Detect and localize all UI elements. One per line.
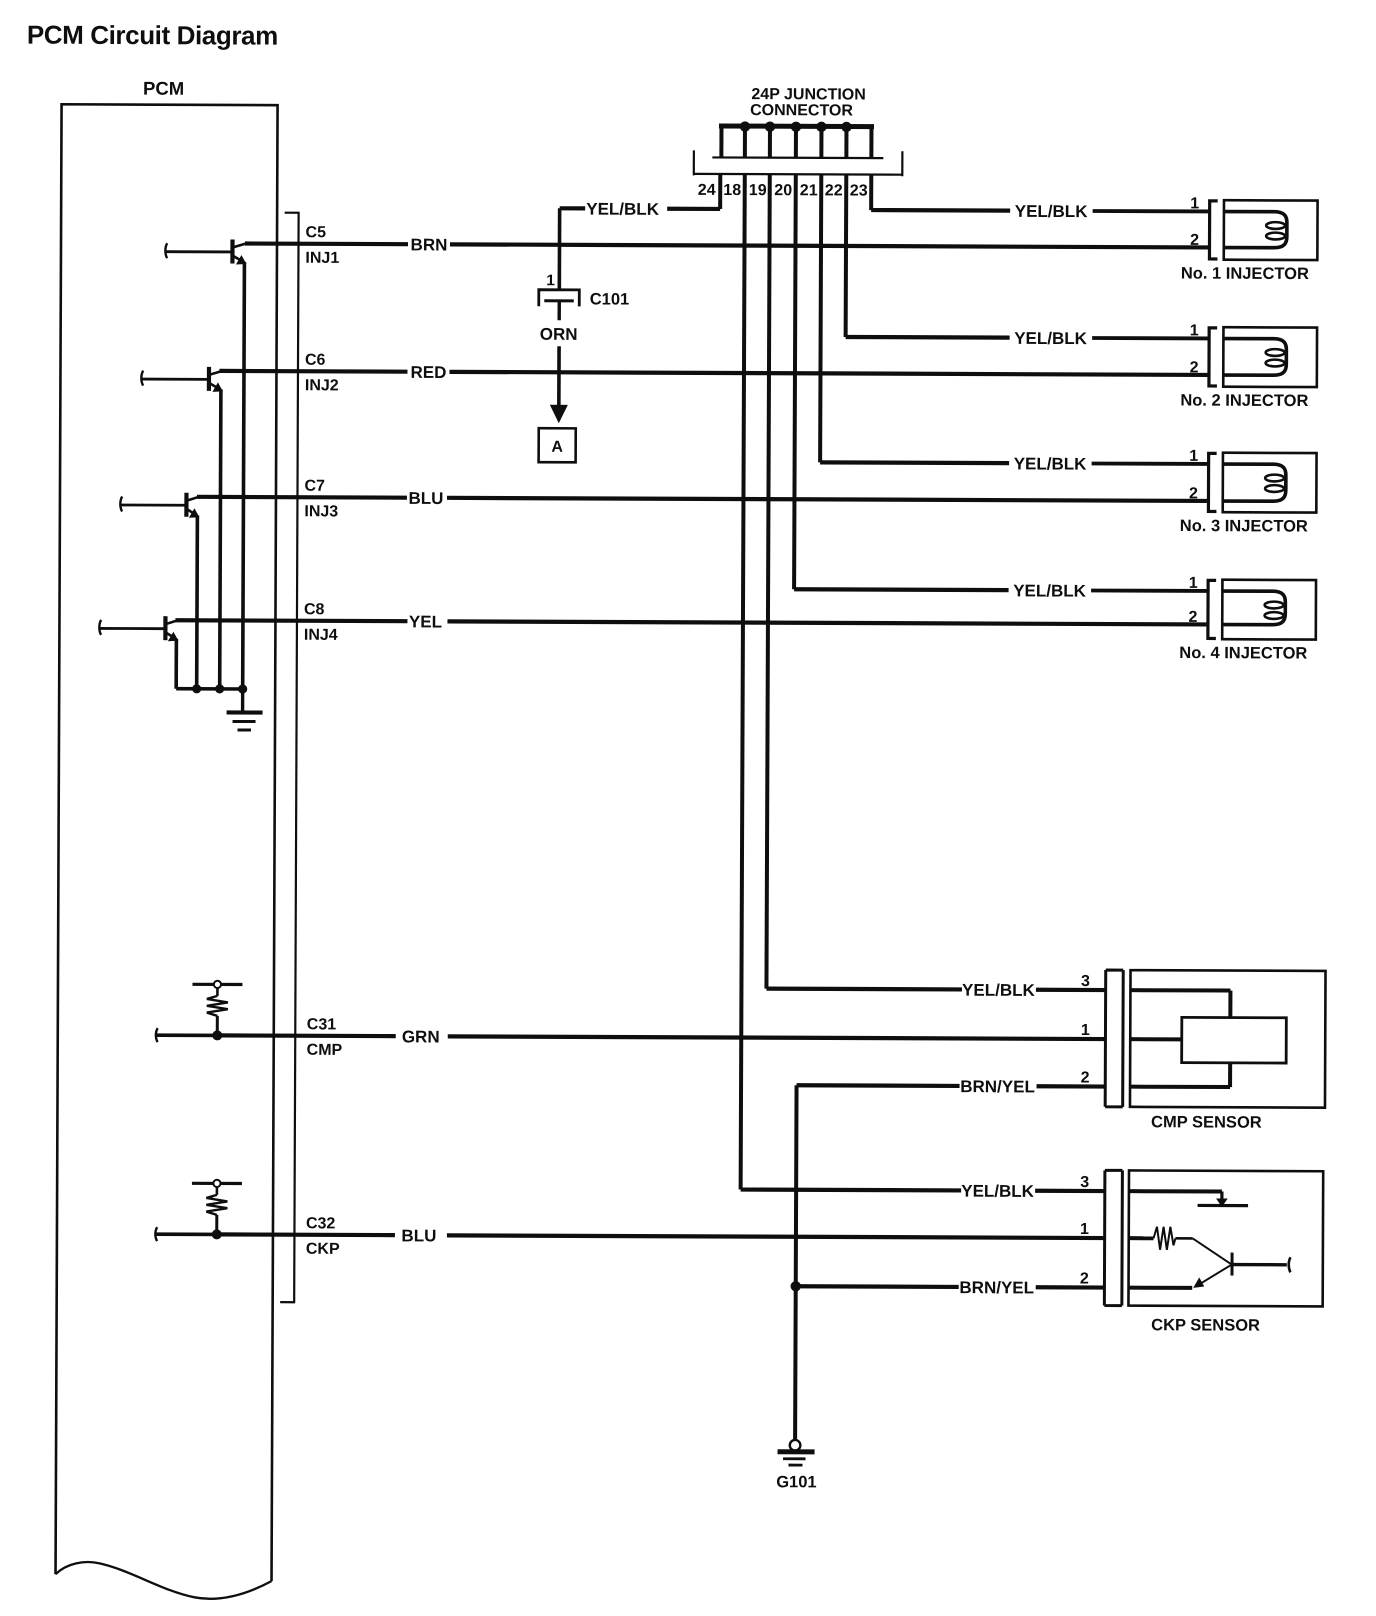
ground symbol bar 2 — [233, 720, 256, 723]
No.2 injector coil loop 2 — [1266, 360, 1285, 367]
C101 lower lead — [557, 301, 560, 320]
resistor R2 (CKP pull-up) wire end tick — [155, 1227, 157, 1241]
No.1 injector connector bracket — [1209, 201, 1217, 259]
resistor R2 (CKP pull-up) junction dot — [212, 1229, 222, 1239]
BRN/YEL wire to CMP pin 2 (right segment) — [1037, 1084, 1106, 1088]
svg-text:C8: C8 — [304, 601, 325, 618]
CKP internal wire after coil — [1175, 1237, 1192, 1240]
svg-text:YEL/BLK: YEL/BLK — [962, 981, 1036, 1000]
No.4 injector coil loop 2 — [1265, 612, 1284, 619]
transistor Q2 base lead end tick — [141, 371, 143, 386]
svg-text:BRN/YEL: BRN/YEL — [960, 1077, 1035, 1096]
resistor R1 (CMP pull-up) resistor lead — [216, 1016, 219, 1035]
No.2 injector body — [1223, 327, 1317, 387]
transistor Q1 base lead end tick — [165, 243, 167, 258]
resistor R1 (CMP pull-up) resistor top lead — [216, 988, 219, 995]
off-page connector box A — [539, 428, 576, 462]
wire C5 BRN to No.1 injector pin 2 (left segment) — [245, 241, 408, 246]
resistor R2 (CKP pull-up) supply bar — [192, 1182, 242, 1185]
pin 24 YEL/BLK wire left segment — [560, 206, 585, 210]
pin 24 wire down — [718, 174, 722, 209]
No.1 injector coil loop 1 — [1266, 222, 1285, 229]
wire C31 GRN to CMP sensor pin 1 (left segment) — [217, 1033, 395, 1038]
transistor Q4 base lead end tick — [99, 620, 101, 635]
BRN/YEL wire to CKP pin 2 (left segment) — [796, 1284, 959, 1289]
svg-text:18: 18 — [723, 182, 741, 199]
G101 ground bar 1 — [778, 1449, 815, 1454]
CKP internal arrowhead to pin 2 — [1193, 1277, 1204, 1288]
YEL/BLK wire to No.3 injector (left segment) — [820, 460, 1009, 465]
wire C6 RED to No.2 injector pin 2 (right segment) — [449, 372, 1207, 375]
G101 ground bar 2 — [783, 1457, 805, 1460]
CKP internal diagonal upper — [1193, 1238, 1232, 1264]
BRN/YEL wire to CMP pin 2 (left segment) — [797, 1083, 960, 1088]
svg-text:C31: C31 — [307, 1016, 337, 1033]
CKP pole piece bar — [1230, 1253, 1233, 1276]
No.1 injector coil outline — [1224, 212, 1287, 248]
svg-text:20: 20 — [774, 182, 792, 199]
resistor R1 (CMP pull-up) supply node circle — [214, 981, 221, 988]
transistor Q3 base lead — [121, 504, 186, 507]
No.2 injector coil loop 1 — [1266, 349, 1285, 356]
svg-text:INJ4: INJ4 — [304, 627, 338, 644]
transistor Q3 collector — [186, 497, 199, 501]
No.1 injector coil loop 2 — [1266, 233, 1285, 240]
YEL/BLK wire to No.4 injector (left segment) — [794, 587, 1008, 592]
No.3 injector body — [1223, 453, 1317, 513]
transistor Q2 collector — [209, 371, 223, 375]
transistor Q3 base bar — [184, 493, 188, 517]
PCM connector strip bottom tick — [280, 1301, 295, 1303]
No.4 injector coil loop 1 — [1265, 602, 1284, 609]
No.4 injector connector bracket — [1208, 580, 1216, 638]
svg-text:YEL/BLK: YEL/BLK — [961, 1182, 1035, 1201]
svg-text:22: 22 — [825, 182, 843, 199]
CMP sensor body — [1130, 970, 1326, 1107]
No.4 injector coil outline — [1222, 591, 1285, 625]
junction connector comb tooth pin 20 — [794, 126, 798, 158]
CKP internal shield arrowhead — [1216, 1198, 1228, 1207]
svg-text:C101: C101 — [590, 290, 630, 308]
No.2 injector coil outline — [1223, 339, 1286, 376]
resistor R2 (CKP pull-up) resistor lead — [215, 1215, 218, 1234]
capacitor C101 bottom plate — [544, 299, 573, 302]
svg-text:BLU: BLU — [408, 489, 443, 508]
svg-text:INJ3: INJ3 — [304, 503, 338, 520]
transistor Q3 emitter arrowhead — [189, 508, 200, 518]
BRN/YEL wire to CKP pin 2 (right segment) — [1036, 1285, 1105, 1289]
transistor Q4 collector — [165, 620, 178, 624]
svg-text:19: 19 — [749, 182, 767, 199]
transistor Q1 base bar — [230, 239, 234, 263]
svg-text:No. 2 INJECTOR: No. 2 INJECTOR — [1180, 392, 1308, 411]
transistor Q2 emitter arrowhead — [212, 382, 223, 392]
junction bus node pin 18 — [740, 121, 750, 131]
transistor Q3 emitter wire down to ground rail — [195, 515, 199, 688]
junction connector body upper line — [712, 156, 883, 159]
junction connector comb tooth pin 19 — [768, 126, 772, 158]
junction emitters Q1 — [238, 684, 247, 693]
transistor Q1 collector — [232, 243, 246, 247]
svg-text:YEL/BLK: YEL/BLK — [1014, 454, 1088, 473]
CMP internal wire pin 3 — [1130, 988, 1230, 992]
CMP sensor element box — [1182, 1017, 1287, 1063]
svg-text:1: 1 — [1081, 1022, 1090, 1039]
svg-text:C32: C32 — [306, 1215, 336, 1232]
CMP internal wire pin 1 — [1130, 1037, 1181, 1041]
svg-text:1: 1 — [1189, 575, 1198, 592]
junction connector bus end drop x=872 — [869, 127, 873, 159]
wire C8 YEL to No.4 injector pin 2 (left segment) — [175, 618, 407, 623]
svg-text:C6: C6 — [305, 352, 326, 369]
CMP sensor connector bracket — [1105, 970, 1123, 1107]
svg-text:YEL/BLK: YEL/BLK — [1013, 581, 1087, 600]
junction emitters Q2 — [215, 684, 224, 693]
svg-text:3: 3 — [1081, 973, 1090, 990]
svg-text:3: 3 — [1080, 1174, 1089, 1191]
svg-text:2: 2 — [1189, 609, 1198, 626]
No.3 injector coil loop 1 — [1265, 475, 1284, 482]
ORN wire down to A — [557, 346, 561, 406]
transistor Q4 emitter arrowhead — [168, 632, 179, 642]
PCM box torn bottom edge — [55, 1562, 271, 1599]
svg-text:24: 24 — [698, 182, 716, 199]
pin 20 wire down to No.4 injector — [794, 174, 796, 589]
YEL/BLK wire to No.1 injector (right segment) — [1093, 209, 1209, 213]
svg-text:CKP: CKP — [306, 1241, 340, 1258]
CKP internal wire pin 2 — [1129, 1286, 1193, 1290]
YEL/BLK wire to No.2 injector (right segment) — [1092, 336, 1208, 340]
PCM box outline — [56, 104, 278, 1581]
svg-text:YEL/BLK: YEL/BLK — [586, 200, 660, 219]
No.4 injector body — [1222, 580, 1316, 640]
transistor Q4 emitter wire down to ground rail — [174, 639, 178, 689]
BRN/YEL common wire down to G101 — [795, 1085, 796, 1440]
emitter common rail — [176, 687, 242, 691]
wire C7 BLU to No.3 injector pin 2 (left segment) — [197, 495, 407, 500]
wire C32 BLU to CKP sensor pin 1 (left segment) — [217, 1232, 395, 1237]
YEL/BLK wire to CKP pin 3 (right segment) — [1035, 1189, 1105, 1193]
CKP pole piece end tick — [1289, 1257, 1291, 1272]
CMP internal wire pin 2 rise — [1228, 1063, 1232, 1087]
junction connector body right end — [901, 151, 903, 176]
svg-text:INJ1: INJ1 — [305, 250, 339, 267]
svg-text:2: 2 — [1190, 359, 1199, 376]
svg-text:1: 1 — [1080, 1221, 1089, 1238]
transistor Q1 emitter — [232, 255, 244, 262]
svg-text:2: 2 — [1080, 1270, 1089, 1287]
YEL/BLK wire to CMP pin 3 (left segment) — [766, 987, 961, 992]
svg-text:C5: C5 — [306, 224, 327, 241]
junction bus node pin 22 — [841, 122, 851, 132]
pin 18 wire down to CKP — [741, 174, 745, 1189]
svg-text:C7: C7 — [304, 478, 325, 495]
wire to PCM internal ground — [241, 689, 244, 712]
No.3 injector connector bracket — [1208, 453, 1216, 511]
wire C32 BLU to CKP sensor pin 1 (right segment) — [447, 1235, 1104, 1238]
junction bus node pin 19 — [765, 121, 775, 131]
wire C6 RED to No.2 injector pin 2 (left segment) — [219, 369, 407, 374]
arrow to off-page connector A — [550, 405, 568, 424]
svg-text:GRN: GRN — [402, 1027, 440, 1046]
G101 ground bar 3 — [788, 1464, 802, 1467]
wire C7 BLU to No.3 injector pin 2 (right segment) — [447, 498, 1207, 501]
wire C5 BRN to No.1 injector pin 2 (right segment) — [450, 244, 1208, 247]
svg-text:1: 1 — [1189, 448, 1198, 465]
svg-text:2: 2 — [1081, 1069, 1090, 1086]
pin 19 wire down to CMP — [766, 174, 769, 988]
resistor R1 (CMP pull-up) junction dot — [212, 1030, 222, 1040]
resistor R2 (CKP pull-up) resistor top lead — [216, 1187, 219, 1194]
resistor R1 (CMP pull-up) resistor zigzag — [207, 996, 228, 1016]
transistor Q1 base lead — [166, 250, 232, 253]
No.3 injector coil loop 2 — [1265, 485, 1284, 492]
svg-text:YEL/BLK: YEL/BLK — [1015, 202, 1089, 221]
transistor Q4 base bar — [163, 616, 167, 640]
wire C8 YEL to No.4 injector pin 2 (right segment) — [447, 621, 1206, 624]
junction emitters Q3 — [192, 684, 201, 693]
CKP pole piece arm — [1232, 1263, 1287, 1267]
pin 23 wire down to No.1 injector — [869, 175, 873, 210]
junction connector comb tooth pin 18 — [743, 126, 747, 158]
PCM connector strip line — [294, 213, 298, 1302]
svg-text:1: 1 — [1190, 195, 1199, 212]
svg-text:ORN: ORN — [540, 325, 578, 344]
svg-text:YEL: YEL — [409, 612, 442, 631]
transistor Q4 emitter — [165, 632, 176, 639]
transistor Q2 base lead — [142, 378, 209, 381]
junction connector comb tooth pin 22 — [844, 126, 848, 158]
svg-text:No. 1 INJECTOR: No. 1 INJECTOR — [1181, 265, 1309, 284]
svg-text:23: 23 — [850, 182, 868, 199]
svg-text:CONNECTOR: CONNECTOR — [750, 102, 853, 119]
transistor Q3 emitter — [186, 509, 197, 516]
CKP internal diagonal lower — [1201, 1264, 1232, 1283]
svg-text:CMP: CMP — [307, 1042, 343, 1059]
junction connector bus bar — [719, 123, 874, 129]
resistor R2 (CKP pull-up) supply node circle — [213, 1180, 220, 1187]
No.3 injector coil outline — [1223, 464, 1286, 501]
junction bus node pin 21 — [816, 122, 826, 132]
wire C31 GRN to CMP sensor pin 1 (right segment) — [448, 1036, 1105, 1039]
YEL/BLK wire to No.2 injector (left segment) — [846, 335, 1010, 340]
svg-text:YEL/BLK: YEL/BLK — [1014, 329, 1088, 348]
junction bus node pin 20 — [791, 122, 801, 132]
junction BRN/YEL CKP pin 2 — [791, 1281, 801, 1291]
svg-text:2: 2 — [1190, 232, 1199, 249]
ground symbol bar 3 — [238, 728, 251, 731]
transistor Q3 base lead end tick — [120, 496, 122, 511]
CKP pickup coil zigzag — [1153, 1227, 1175, 1250]
No.2 injector connector bracket — [1209, 328, 1217, 386]
capacitor C101 top plate bracket — [539, 290, 580, 307]
svg-text:RED: RED — [410, 363, 446, 382]
svg-text:BRN/YEL: BRN/YEL — [959, 1278, 1034, 1297]
wire down to capacitor C101 — [558, 208, 562, 289]
CKP sensor body — [1128, 1170, 1323, 1306]
junction connector comb tooth pin 21 — [819, 126, 823, 158]
svg-text:BLU: BLU — [401, 1226, 436, 1245]
junction connector body lower line — [694, 173, 902, 176]
CMP internal wire pin 3 drop — [1228, 991, 1232, 1018]
svg-text:INJ2: INJ2 — [305, 377, 339, 394]
CKP internal shield bar — [1198, 1204, 1248, 1207]
svg-text:No. 4 INJECTOR: No. 4 INJECTOR — [1179, 644, 1307, 663]
ground symbol bar 1 — [227, 710, 263, 714]
pin 24 YEL/BLK wire right segment — [667, 207, 720, 211]
pin 22 wire down to No.2 injector — [844, 174, 849, 336]
svg-text:G101: G101 — [776, 1473, 816, 1491]
PCM connector strip top tick — [285, 212, 300, 214]
CKP internal wire pin 3 drop — [1220, 1192, 1223, 1204]
CKP internal wire pin 1 — [1129, 1236, 1154, 1240]
svg-text:BRN: BRN — [411, 235, 448, 254]
svg-text:24P JUNCTION: 24P JUNCTION — [751, 86, 865, 103]
resistor R1 (CMP pull-up) wire end tick — [156, 1028, 158, 1042]
transistor Q1 emitter arrowhead — [236, 255, 247, 265]
svg-text:PCM Circuit Diagram: PCM Circuit Diagram — [27, 20, 278, 51]
transistor Q1 emitter wire down to ground rail — [243, 262, 245, 689]
CMP internal wire pin 2 — [1130, 1085, 1230, 1089]
svg-text:CKP SENSOR: CKP SENSOR — [1151, 1316, 1260, 1334]
transistor Q2 base bar — [207, 367, 211, 391]
svg-text:1: 1 — [546, 272, 555, 289]
pin 21 wire down to No.3 injector — [820, 174, 821, 462]
resistor R2 (CKP pull-up) wire inside PCM — [156, 1232, 294, 1236]
svg-text:21: 21 — [800, 182, 818, 199]
svg-text:1: 1 — [1190, 322, 1199, 339]
resistor R1 (CMP pull-up) wire inside PCM — [157, 1033, 295, 1037]
svg-text:A: A — [551, 439, 563, 456]
YEL/BLK wire to No.4 injector (right segment) — [1091, 589, 1207, 593]
YEL/BLK wire to CKP pin 3 (left segment) — [741, 1187, 961, 1192]
svg-text:2: 2 — [1189, 485, 1198, 502]
CKP sensor connector bracket — [1104, 1170, 1122, 1305]
YEL/BLK wire to CMP pin 3 (right segment) — [1036, 988, 1106, 992]
junction connector bus end drop x=722 — [719, 126, 723, 158]
transistor Q2 emitter wire down to ground rail — [220, 389, 221, 688]
transistor Q4 base lead — [100, 627, 165, 630]
svg-text:CMP SENSOR: CMP SENSOR — [1151, 1113, 1262, 1131]
YEL/BLK wire to No.3 injector (right segment) — [1092, 462, 1208, 466]
transistor Q2 emitter — [209, 383, 221, 390]
junction connector body left end — [693, 150, 695, 175]
YEL/BLK wire to No.1 injector (left segment) — [871, 208, 1010, 213]
resistor R2 (CKP pull-up) resistor zigzag — [206, 1195, 227, 1215]
svg-text:PCM: PCM — [143, 78, 184, 99]
G101 ground terminal circle — [790, 1440, 801, 1451]
CKP internal wire pin 3 — [1129, 1189, 1222, 1193]
svg-text:No. 3 INJECTOR: No. 3 INJECTOR — [1180, 517, 1308, 536]
No.1 injector body — [1224, 200, 1318, 260]
resistor R1 (CMP pull-up) supply bar — [192, 983, 242, 986]
